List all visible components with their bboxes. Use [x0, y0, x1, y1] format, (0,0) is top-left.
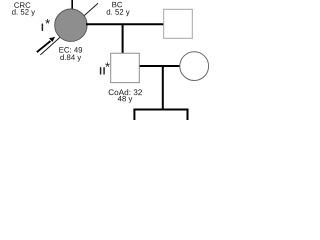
wire descent line II to III: [162, 66, 164, 111]
label CoAd: 32: [109, 89, 142, 95]
label d.84 y: [60, 54, 81, 61]
male II.1 square: [111, 53, 140, 82]
generation label II: [100, 67, 104, 74]
generation label I: [41, 24, 44, 31]
label BC: [112, 2, 122, 8]
asterisk for generation I: [45, 19, 50, 24]
deceased slash through I.1: [40, 3, 98, 55]
wire marriage line generation II: [140, 65, 181, 67]
wire marriage line generation I: [86, 23, 164, 25]
female II.2 circle: [180, 52, 209, 81]
wire ancestry line above proband I: [71, 0, 73, 11]
label d. 52 y (I.1): [12, 9, 35, 16]
wire child drop right: [187, 110, 189, 121]
label CRC: [14, 2, 30, 8]
asterisk for generation II: [105, 62, 110, 67]
proband arrow: [37, 41, 51, 52]
label 48 y: [118, 96, 133, 103]
wire child drop left: [133, 110, 135, 121]
affected female I.1 (proband circle): [55, 9, 87, 41]
label d. 52 y (I.2): [107, 9, 130, 16]
label EC: 49: [59, 47, 82, 53]
male I.2 square: [164, 9, 193, 38]
wire sibship line generation III: [133, 109, 188, 111]
wire descent line I to II: [122, 24, 124, 53]
